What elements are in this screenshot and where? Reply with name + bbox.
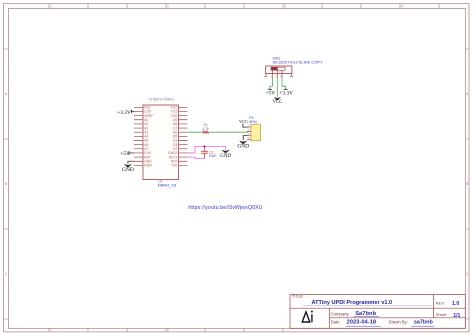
title block	[290, 294, 465, 329]
svg-text:ATTiny UPDI Programmer v1.0: ATTiny UPDI Programmer v1.0	[312, 300, 393, 306]
P1 body	[251, 124, 261, 141]
svg-text:Drawn By:: Drawn By:	[389, 320, 408, 325]
U1 right pin names	[168, 106, 177, 168]
date underline	[346, 325, 381, 327]
P1 pin stubs	[247, 127, 251, 140]
svg-text:+3.3V: +3.3V	[117, 110, 131, 116]
svg-text:GND: GND	[122, 167, 134, 173]
svg-text:TX0: TX0	[171, 164, 177, 168]
svg-text:https://youtu.be/i3vWjwxQ0XU: https://youtu.be/i3vWjwxQ0XU	[188, 205, 262, 211]
wire RST1 to C1 (magenta)	[188, 157, 205, 158]
net flag +3.3V (below SW1)	[279, 89, 293, 96]
svg-text:Arduino Nano: Arduino Nano	[149, 97, 175, 102]
wire to 5.5V pin	[129, 152, 134, 154]
logo cell divider	[328, 308, 330, 328]
svg-text:1.0: 1.0	[452, 301, 459, 307]
capacitor C1	[201, 146, 208, 158]
P1 pin numbers	[248, 124, 250, 139]
ground symbol (left of U1)	[122, 164, 134, 173]
svg-text:+5V: +5V	[266, 91, 276, 97]
svg-text:RAW: RAW	[144, 164, 152, 168]
net flag +5V (below SW1)	[266, 89, 276, 96]
svg-text:3: 3	[284, 5, 286, 9]
svg-text:+3.3V: +3.3V	[279, 91, 293, 97]
svg-text:4.7k: 4.7k	[202, 127, 209, 131]
frame ticks bottom	[49, 328, 283, 332]
svg-text:SK12D07VG3 SLIDE COPY: SK12D07VG3 SLIDE COPY	[273, 59, 324, 64]
title block outer box	[290, 295, 465, 329]
title row divider	[290, 307, 465, 309]
rev column divider	[433, 295, 435, 318]
svg-text:2: 2	[167, 328, 169, 332]
slide switch SW1	[264, 57, 323, 79]
svg-text:GND: GND	[237, 144, 249, 150]
SW1 pin stubs	[266, 74, 292, 78]
wire to 3.3V pin	[131, 110, 134, 112]
frame ticks left	[4, 49, 9, 319]
ground symbol (header)	[237, 141, 249, 150]
wire SW1 pin3 to +3.3V	[282, 78, 286, 89]
net flag VCC (below SW1)	[273, 97, 283, 105]
U1 right pin stubs	[179, 107, 188, 165]
svg-text:10uF: 10uF	[209, 154, 217, 158]
svg-text:VCC: VCC	[239, 119, 248, 124]
svg-text:4Pin: 4Pin	[249, 120, 257, 124]
svg-text:GND: GND	[220, 154, 231, 159]
SW1 pin numbers	[271, 75, 282, 78]
net flag +3.3V (left)	[117, 110, 134, 117]
svg-text:REV:: REV:	[436, 301, 445, 306]
U1 left pin stubs	[134, 107, 143, 165]
svg-text:Date:: Date:	[331, 319, 341, 324]
wire GND pin to ground (left)	[128, 161, 134, 164]
wire SW1 pin2 to VCC	[276, 78, 278, 97]
wire D6 to header (UPDI, green)	[188, 131, 248, 133]
net flag +5V (left)	[120, 151, 134, 157]
svg-text:Sheet:: Sheet:	[436, 312, 448, 317]
U1 left pin names	[144, 106, 153, 168]
svg-text:2: 2	[167, 5, 169, 9]
junction node at C1 top	[203, 145, 205, 147]
frame ticks right	[465, 49, 469, 319]
SW1 body	[266, 66, 292, 74]
svg-text:NANO_V3: NANO_V3	[158, 183, 177, 188]
wire SW1 pin1 to +5V	[270, 78, 273, 89]
SW1 mounting pin marks	[264, 75, 293, 77]
IC U1 Arduino Nano module (NANO_V3)	[134, 97, 188, 188]
connector P1 4Pin header	[247, 116, 260, 141]
svg-text:1: 1	[50, 328, 52, 332]
svg-text:1: 1	[50, 5, 52, 9]
svg-text:sa7bnb: sa7bnb	[414, 320, 434, 326]
company underline	[354, 315, 379, 317]
svg-text:4: 4	[401, 5, 403, 9]
svg-text:Company:: Company:	[331, 311, 350, 316]
resistor R1	[203, 131, 209, 133]
svg-text:TITLE:: TITLE:	[292, 294, 304, 299]
U1 body	[143, 105, 179, 180]
frame ticks top	[49, 4, 439, 9]
svg-text:+5V: +5V	[120, 151, 130, 157]
title underline	[303, 305, 432, 307]
wire VCC to P1 pin1	[243, 123, 248, 127]
company/date row divider	[329, 317, 465, 319]
svg-text:2023-04-18: 2023-04-18	[347, 320, 377, 326]
ground symbol (right of C1)	[220, 150, 231, 159]
svg-text:1/1: 1/1	[453, 313, 460, 319]
wire GND2 to ground (magenta)	[188, 146, 226, 153]
drawnby underline	[412, 325, 435, 327]
svg-text:VCC: VCC	[273, 100, 283, 105]
SW1 internal pin strokes	[273, 70, 282, 73]
wire P1 pin3 to ground	[243, 136, 247, 141]
company logo	[302, 312, 312, 322]
